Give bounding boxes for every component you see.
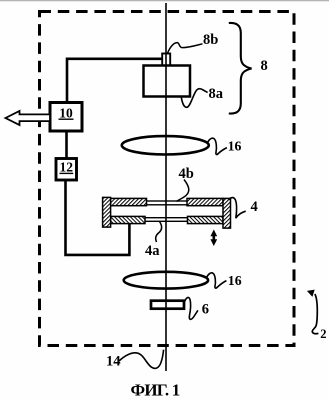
svg-text:12: 12 — [60, 159, 74, 174]
leader line to 4b — [177, 180, 189, 202]
label 16 (lower) — [228, 273, 242, 288]
svg-text:16: 16 — [228, 139, 242, 154]
svg-text:8b: 8b — [203, 32, 218, 48]
label 8a — [209, 86, 224, 102]
dashed boundary of device 2 — [40, 12, 295, 346]
wire from box 10 to emitter 8b — [67, 59, 163, 103]
lens 16 (upper) — [122, 136, 209, 154]
mirror 4: top-right hatched bar — [187, 198, 223, 205]
caption ФИГ. 1 — [131, 381, 180, 400]
label 14 — [106, 354, 121, 370]
deformable mirror 4: lower plate 4a — [141, 218, 190, 222]
label 2 — [320, 327, 326, 341]
leader line to 8b — [167, 43, 202, 54]
svg-text:10: 10 — [59, 106, 73, 121]
leader line to 8a — [181, 89, 207, 108]
svg-text:ФИГ. 1: ФИГ. 1 — [131, 381, 180, 400]
mirror 4: bottom-right hatched bar — [188, 216, 224, 223]
box 10 (driver) — [50, 103, 82, 132]
label 6 — [202, 301, 209, 317]
aperture element 6 — [151, 301, 184, 309]
label 8 — [261, 58, 268, 74]
svg-text:8a: 8a — [209, 86, 224, 102]
svg-text:4b: 4b — [179, 166, 194, 182]
svg-text:6: 6 — [202, 301, 209, 317]
leader line to 4 — [229, 198, 246, 219]
optical axis 14 (vertical line) — [165, 3, 167, 371]
label 4 — [251, 199, 258, 215]
svg-text:2: 2 — [320, 327, 326, 341]
label 8b — [203, 32, 218, 48]
label 10 — [59, 106, 74, 121]
radiation source body 8a — [144, 66, 191, 97]
wire from box 10 to box 12 — [65, 130, 68, 159]
box 12 (driver) — [56, 159, 77, 181]
mirror 4: bottom-left hatched bar — [111, 216, 146, 223]
leader line to lower 16 — [207, 273, 227, 288]
svg-text:14: 14 — [106, 354, 121, 370]
svg-text:4a: 4a — [145, 243, 160, 259]
svg-text:8: 8 — [261, 58, 268, 74]
curly brace grouping source 8 — [229, 23, 252, 114]
output arrow (leaving device through boundary) — [6, 111, 51, 125]
hook arrow to 2 — [307, 290, 319, 334]
leader line to 4a — [156, 222, 162, 243]
mirror 4: top-left hatched bar — [111, 198, 147, 205]
svg-text:4: 4 — [251, 199, 258, 215]
svg-text:16: 16 — [228, 273, 242, 288]
label 16 (upper) — [228, 139, 242, 154]
leader line to 14 (axis) — [119, 350, 164, 369]
leader line to 6 — [184, 297, 198, 319]
emitter element 8b — [162, 54, 170, 66]
mirror 4: right end cap — [223, 198, 231, 228]
leader line to upper 16 — [208, 138, 227, 154]
wire from box 12 to mirror bottom electrode 4a — [66, 179, 130, 255]
lens 16 (lower) — [124, 272, 208, 289]
up-down motion arrow — [210, 230, 217, 247]
mirror 4: left end cap — [103, 197, 111, 227]
deformable mirror 4: upper membrane 4b plate — [141, 201, 190, 205]
label 12 — [60, 159, 74, 174]
label 4a — [145, 243, 160, 259]
label 4b — [179, 166, 194, 182]
